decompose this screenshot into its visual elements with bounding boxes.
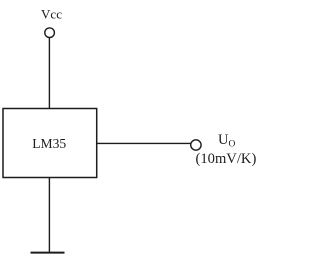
wire Vcc terminal to LM35 pin top: [48, 38, 50, 109]
wire LM35 pin bottom to ground: [48, 178, 50, 253]
wire LM35 output pin to node Uo: [97, 142, 191, 144]
sensor U1 LM35 body: [3, 109, 97, 178]
svg-text:Vcc: Vcc: [41, 6, 62, 21]
ground: [31, 252, 65, 254]
svg-text:(10mV/K): (10mV/K): [196, 151, 257, 167]
svg-text:UO: UO: [218, 132, 236, 150]
svg-text:LM35: LM35: [32, 136, 66, 151]
node Uo output terminal: [191, 140, 201, 150]
power terminal Vcc: [45, 28, 55, 38]
